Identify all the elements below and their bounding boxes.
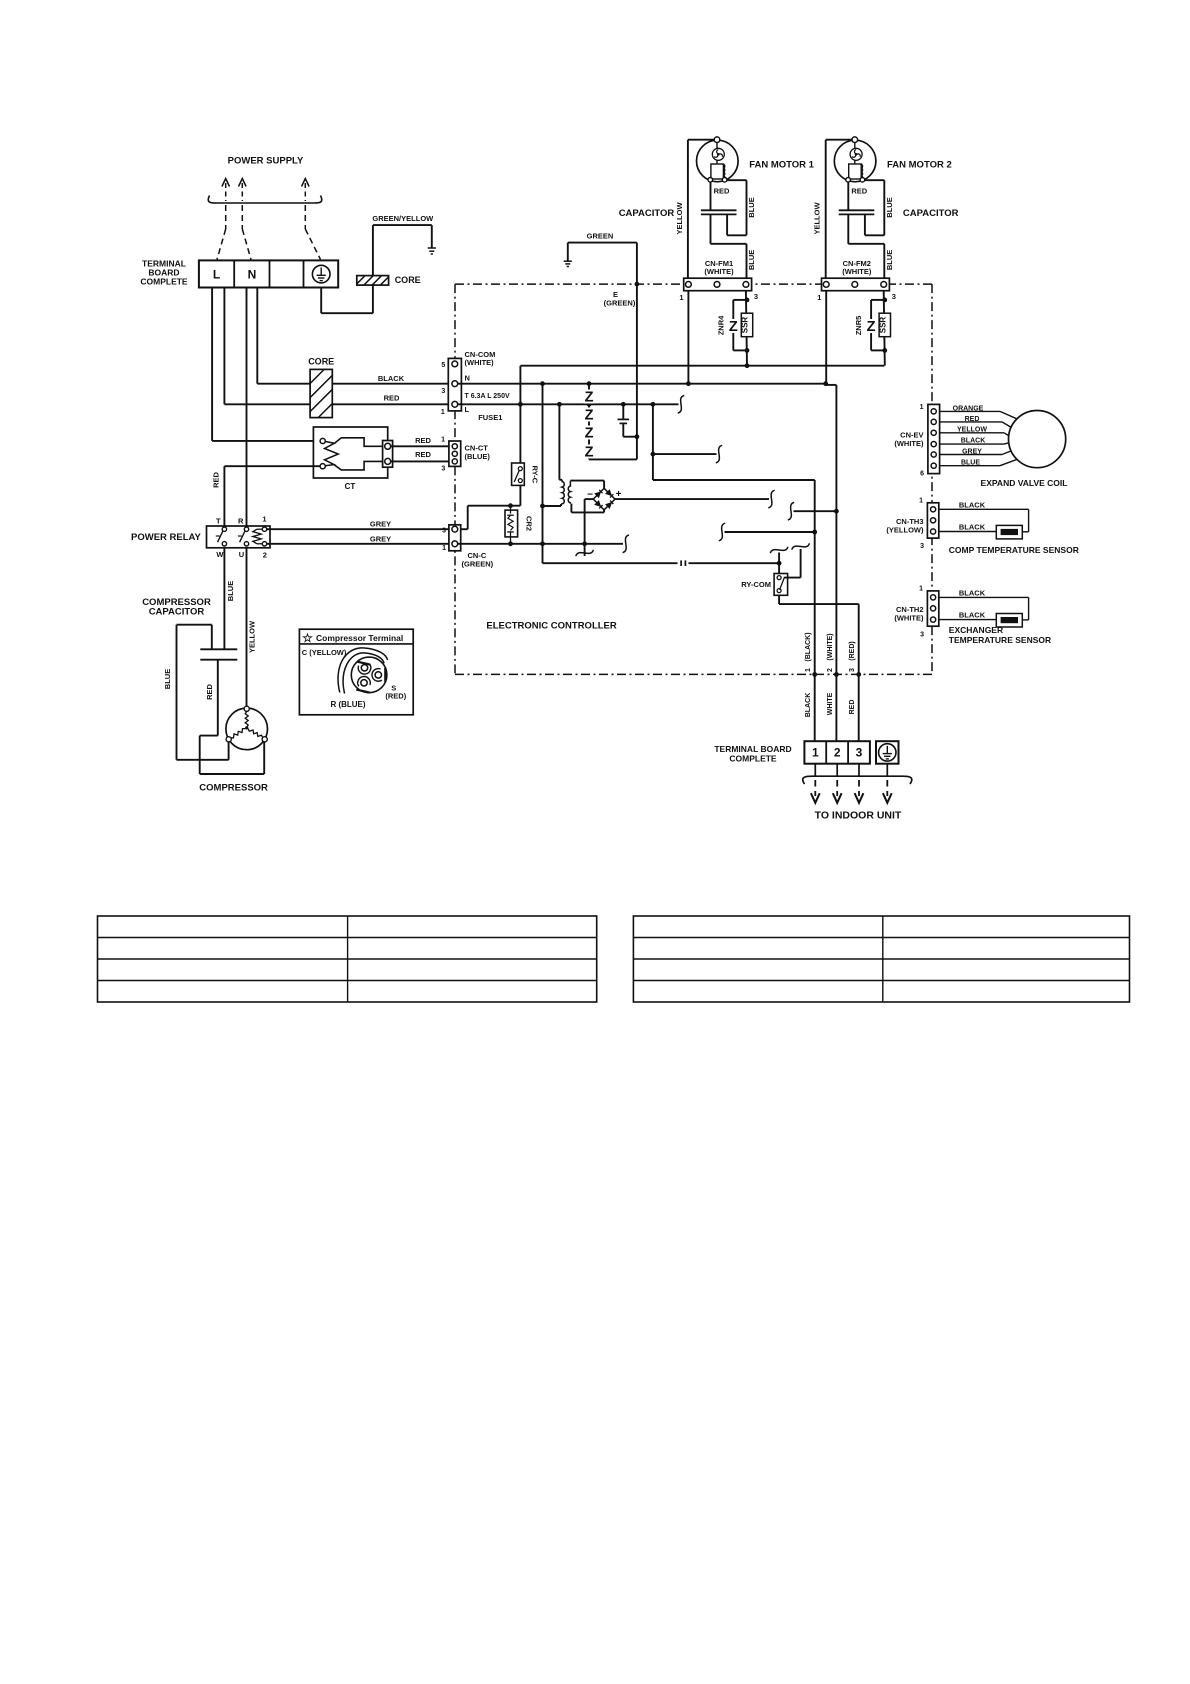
node N-drop primary: [540, 504, 545, 509]
svg-text:T: T: [216, 517, 221, 526]
svg-text:Z: Z: [585, 407, 594, 423]
wire pin3 down (motor 2): [884, 291, 885, 366]
compressor terminal drawing: [338, 648, 388, 694]
compressor capacitor plates: [200, 649, 237, 659]
ground symbol (green/yellow): [428, 248, 436, 254]
fan blades (motor 1): [712, 148, 724, 160]
node lead1 border: [812, 672, 817, 677]
svg-text:FAN MOTOR 2: FAN MOTOR 2: [887, 160, 952, 171]
table right: [633, 916, 1129, 1002]
svg-text:(BLUE): (BLUE): [465, 452, 491, 461]
svg-text:W: W: [216, 550, 224, 559]
svg-text:(WHITE): (WHITE): [827, 633, 834, 660]
wire N-drop vertical: [542, 384, 544, 564]
node lead3 border: [856, 672, 861, 677]
svg-text:1: 1: [919, 498, 923, 505]
series capacitor on com wire: [678, 560, 689, 566]
svg-text:(WHITE): (WHITE): [704, 267, 734, 276]
svg-text:BLUE: BLUE: [885, 197, 894, 217]
CT primary terminals: [320, 438, 325, 468]
svg-text:(GREEN): (GREEN): [604, 299, 636, 308]
svg-text:BLACK: BLACK: [805, 693, 812, 718]
svg-text:BLACK: BLACK: [959, 611, 986, 620]
wire N to CN-COM (BLACK through core): [257, 288, 452, 384]
svg-text:GREEN/YELLOW: GREEN/YELLOW: [372, 214, 434, 223]
node N fan1 yellow: [686, 381, 691, 386]
svg-text:CAPACITOR: CAPACITOR: [903, 208, 959, 219]
break (left of black joint): [719, 523, 725, 541]
svg-text:YELLOW: YELLOW: [675, 202, 684, 235]
wire bridge plus output: [615, 498, 769, 500]
wire branch to break: [653, 453, 717, 455]
svg-text:EXPAND VALVE COIL: EXPAND VALVE COIL: [981, 478, 1068, 488]
svg-text:2: 2: [263, 551, 267, 560]
terminal board complete (top): [199, 260, 338, 287]
node CR2 bottom: [508, 541, 513, 546]
connector CN-EV (WHITE): [928, 404, 940, 473]
relay SSR (motor 2): [878, 313, 890, 337]
connector CN-FM2: [822, 278, 890, 291]
wire yellow below connector (motor 1): [687, 291, 689, 384]
svg-text:CORE: CORE: [395, 275, 421, 285]
svg-text:ZNR4: ZNR4: [716, 315, 725, 335]
node black joint: [812, 530, 817, 535]
node N fan2 yellow: [823, 381, 828, 386]
label COMPRESSOR CAPACITOR: [142, 597, 211, 618]
labels BLACK (CN-TH3): [959, 500, 986, 531]
node znr bottom (motor 2): [882, 348, 887, 353]
break stub: [576, 550, 594, 556]
svg-text:ZNR5: ZNR5: [854, 316, 863, 336]
svg-text:1: 1: [441, 437, 445, 444]
svg-text:BLUE: BLUE: [747, 197, 756, 217]
connector CN-TH2: [927, 591, 938, 626]
connector CN-CT (BLUE): [449, 441, 461, 466]
svg-text:BLACK: BLACK: [378, 374, 405, 383]
svg-text:BLACK: BLACK: [959, 500, 986, 509]
break branch: [716, 445, 722, 463]
svg-text:RY-C: RY-C: [531, 465, 540, 483]
ground symbol (green): [564, 261, 572, 266]
wire from break to black: [725, 531, 815, 533]
wire to transformer primary: [543, 504, 562, 506]
svg-text:RED: RED: [415, 450, 431, 459]
varistor ZNR4 Z: [728, 319, 739, 333]
svg-text:(WHITE): (WHITE): [894, 439, 924, 448]
svg-text:CAPACITOR: CAPACITOR: [149, 607, 205, 618]
wire red (capacitor bottom to compressor S): [200, 660, 265, 774]
node L transformer: [557, 402, 562, 407]
svg-text:GREY: GREY: [962, 448, 982, 455]
svg-text:1: 1: [441, 409, 445, 416]
svg-text:ORANGE: ORANGE: [953, 406, 984, 413]
power relay coil resistor: [253, 527, 267, 546]
svg-text:3: 3: [442, 528, 446, 535]
svg-text:RY-COM: RY-COM: [741, 580, 771, 589]
svg-text:2: 2: [834, 746, 841, 760]
compressor windings: [231, 712, 263, 738]
svg-text:U: U: [239, 550, 244, 559]
wire green/yellow earth: [321, 225, 432, 313]
node N-Z column: [587, 381, 592, 386]
svg-text:1: 1: [817, 293, 821, 302]
svg-text:5: 5: [441, 362, 445, 369]
compressor terminal box: [299, 629, 413, 715]
wire CT to CN-CT pin3: [391, 460, 452, 462]
wire L to CT (left): [212, 288, 320, 441]
break bridge plus: [768, 490, 774, 508]
node lead2 border: [834, 672, 839, 677]
transformer secondary: [568, 481, 604, 513]
wire SSR bus: [520, 366, 884, 463]
node CR2 top: [508, 503, 513, 508]
svg-text:POWER SUPPLY: POWER SUPPLY: [228, 156, 304, 167]
svg-text:3: 3: [441, 466, 445, 473]
svg-text:ELECTRONIC CONTROLLER: ELECTRONIC CONTROLLER: [486, 621, 616, 632]
svg-text:1: 1: [262, 515, 266, 524]
svg-text:CT: CT: [345, 482, 356, 491]
svg-text:RED: RED: [849, 700, 856, 715]
svg-text:(WHITE): (WHITE): [894, 613, 924, 622]
varistor Z2: [584, 408, 595, 422]
svg-text:R: R: [238, 517, 244, 526]
svg-text:(BLACK): (BLACK): [805, 632, 812, 661]
svg-text:YELLOW: YELLOW: [248, 620, 257, 653]
wire blue (motor 1): [727, 180, 747, 235]
svg-text:1: 1: [812, 746, 819, 760]
svg-text:(RED): (RED): [849, 641, 856, 660]
svg-text:FUSE1: FUSE1: [478, 413, 502, 422]
node white joint: [834, 509, 839, 514]
break (left of white joint): [788, 502, 794, 520]
labels (BLACK)(WHITE)(RED): [805, 632, 856, 661]
capacitor (motor 1): [701, 182, 747, 278]
node SSR1 bus: [745, 363, 750, 368]
svg-text:EXCHANGER: EXCHANGER: [949, 625, 1003, 635]
wire N down to power relay R: [246, 288, 248, 527]
break bottom bus: [623, 535, 629, 553]
svg-text:RED: RED: [714, 187, 730, 196]
relay RY-COM: [774, 563, 788, 595]
connector CN-C (GREEN): [449, 525, 461, 551]
svg-text:T 6.3A L 250V: T 6.3A L 250V: [465, 393, 510, 400]
svg-text:2: 2: [827, 668, 834, 672]
svg-text:GREY: GREY: [370, 520, 391, 529]
wire green (E) with ground: [568, 243, 637, 460]
power relay contact R: [238, 527, 249, 546]
svg-text:1: 1: [442, 545, 446, 552]
break L bus: [678, 396, 684, 414]
svg-text:R (BLUE): R (BLUE): [330, 700, 365, 709]
connector CN-COM (WHITE): [448, 358, 461, 411]
svg-text:WHITE: WHITE: [827, 692, 834, 715]
svg-text:L: L: [213, 268, 220, 282]
svg-text:YELLOW: YELLOW: [813, 202, 822, 235]
power relay contact T: [216, 527, 227, 546]
CN-EV wire labels: [953, 406, 988, 467]
svg-text:COMPLETE: COMPLETE: [729, 753, 777, 763]
CT winding zigzag: [325, 442, 339, 466]
svg-text:RED: RED: [212, 472, 221, 488]
current transformer CT box: [313, 427, 387, 478]
core (horizontal, on green/yellow wire): [357, 276, 389, 286]
svg-text:1: 1: [679, 293, 683, 302]
CN-C labels: [442, 528, 494, 569]
svg-text:Compressor Terminal: Compressor Terminal: [316, 633, 403, 643]
wire yellow (motor 2): [826, 140, 852, 279]
wires CN-TH2 to sensor: [939, 597, 1029, 620]
compressor terminals: [226, 706, 267, 742]
wire L to fuse (RED through core): [224, 288, 452, 405]
svg-text:RED: RED: [851, 187, 867, 196]
svg-text:3: 3: [856, 746, 863, 760]
svg-text:☆: ☆: [302, 631, 313, 645]
svg-text:RED: RED: [384, 394, 400, 403]
wire L right drop: [653, 404, 815, 741]
wire GREY relay 1 to CN-C 3: [267, 528, 452, 530]
node N-drop on bus: [540, 541, 545, 546]
svg-text:BLUE: BLUE: [961, 459, 980, 466]
svg-text:RED: RED: [205, 684, 214, 700]
wire blue loop (capacitor top to compressor R): [177, 625, 229, 760]
svg-text:SSR: SSR: [741, 317, 750, 334]
svg-text:1: 1: [919, 586, 923, 593]
svg-text:N: N: [248, 268, 257, 282]
wire RY-COM to red lead: [779, 595, 859, 741]
labels pins 1 2 3: [805, 668, 856, 672]
svg-text:BLUE: BLUE: [226, 581, 235, 601]
wire varistor column: [589, 384, 637, 460]
wire bridge minus to bus: [585, 498, 594, 500]
CN-CT labels: [441, 437, 490, 473]
varistor ZNR4 branch: [733, 300, 747, 351]
svg-text:YELLOW: YELLOW: [957, 427, 987, 434]
label TERMINAL BOARD COMPLETE: [140, 259, 188, 287]
svg-text:Z: Z: [729, 319, 738, 335]
wire yellow (motor 1): [688, 140, 714, 279]
node cap to green: [635, 434, 640, 439]
svg-text:1: 1: [805, 668, 812, 672]
fan motor 1: [697, 137, 739, 182]
svg-text:3: 3: [441, 388, 445, 395]
node znr top (motor 1): [745, 298, 750, 303]
connector CN-FM1: [684, 278, 752, 291]
core (vertical): [310, 369, 332, 417]
terminal board earth symbol: [312, 265, 330, 283]
varistor ZNR5 Z: [866, 319, 877, 333]
CN-COM labels: [441, 350, 510, 422]
svg-text:BLACK: BLACK: [959, 523, 986, 532]
resistor CR2: [505, 506, 518, 544]
svg-text:POWER RELAY: POWER RELAY: [131, 532, 202, 543]
svg-text:COMPRESSOR: COMPRESSOR: [199, 783, 268, 794]
svg-text:TERMINAL BOARD: TERMINAL BOARD: [714, 744, 791, 754]
wire stubs below terminal board: [815, 764, 887, 777]
power relay pin labels: [216, 515, 267, 560]
wire GREY relay 2 to CN-C 1: [267, 543, 452, 545]
relay SSR (motor 1): [741, 313, 753, 337]
label TERMINAL BOARD COMPLETE (bottom): [714, 744, 791, 764]
CT secondary outline: [334, 438, 383, 470]
svg-text:TO INDOOR UNIT: TO INDOOR UNIT: [815, 810, 902, 822]
node L right drop: [651, 402, 656, 407]
node branch 454: [651, 452, 656, 457]
wire YELLOW relay U to compressor C: [246, 548, 248, 706]
svg-text:Z: Z: [585, 425, 594, 441]
svg-text:1: 1: [920, 404, 924, 411]
connector CN-TH3: [927, 503, 938, 538]
motor coil (motor 1): [708, 164, 727, 182]
wire CT to power relay T: [224, 466, 320, 526]
node znr top (motor 2): [882, 298, 887, 303]
svg-text:(YELLOW): (YELLOW): [886, 525, 924, 534]
label CN-FM2 (WHITE): [842, 259, 872, 276]
relay RY-C: [512, 463, 525, 485]
svg-text:FAN MOTOR 1: FAN MOTOR 1: [749, 160, 814, 171]
dashed arrows to indoor unit: [811, 780, 892, 803]
svg-text:SSR: SSR: [878, 317, 887, 334]
CN-TH3 labels: [886, 498, 924, 551]
svg-text:Z: Z: [585, 444, 594, 460]
svg-text:Z: Z: [585, 389, 594, 405]
svg-text:RED: RED: [965, 416, 980, 423]
terminal board complete (bottom): [804, 741, 870, 764]
node RY-COM top: [777, 561, 782, 566]
node znr bottom (motor 1): [745, 348, 750, 353]
cable bracket (bottom): [803, 776, 912, 784]
svg-text:BLUE: BLUE: [163, 669, 172, 689]
expand valve coil: [1009, 411, 1066, 468]
wire pin3 down (motor 1): [746, 291, 747, 366]
electronic controller border (dash-dot): [455, 284, 932, 674]
varistor Z3: [584, 426, 595, 440]
svg-text:CAPACITOR: CAPACITOR: [619, 208, 675, 219]
power supply arrows: [222, 179, 309, 202]
label S (RED): [385, 684, 406, 701]
label EXCHANGER TEMPERATURE SENSOR: [949, 625, 1051, 645]
wire CT to CN-CT pin1: [391, 445, 452, 447]
svg-text:(GREEN): (GREEN): [462, 560, 494, 569]
wires CN-EV to coil: [940, 411, 1017, 465]
wires CN-TH3 to sensor: [939, 509, 1029, 532]
wire RY-C to CN-C 3: [458, 485, 521, 529]
svg-text:BLACK: BLACK: [959, 588, 986, 597]
wire blue (motor 2): [865, 180, 885, 235]
motor coil (motor 2): [846, 164, 865, 182]
thermistor (CN-TH3): [996, 525, 1022, 539]
wire com (from N-drop): [543, 562, 780, 564]
svg-text:CR2: CR2: [525, 516, 534, 531]
pin labels CN-FM1: [679, 292, 758, 302]
wire L bus: [458, 403, 679, 405]
varistor Z4: [584, 445, 595, 459]
svg-text:BLACK: BLACK: [961, 438, 986, 445]
node N-drop: [540, 381, 545, 386]
svg-text:L: L: [465, 405, 470, 414]
stub below bridge minus: [584, 544, 586, 556]
svg-text:3: 3: [754, 292, 758, 301]
svg-text:N: N: [465, 374, 470, 383]
fan motor 2: [834, 137, 876, 182]
labels BLACK WHITE RED: [805, 692, 856, 717]
dashed leads to terminal board: [217, 205, 321, 260]
wire RY-COM up break: [778, 553, 780, 564]
capacitor (motor 2): [839, 182, 885, 278]
svg-text:BLUE: BLUE: [885, 250, 894, 270]
CN-TH2 labels: [894, 586, 924, 639]
labels BLACK (CN-TH2): [959, 588, 986, 619]
label CN-FM1 (WHITE): [704, 259, 734, 276]
svg-text:(RED): (RED): [385, 692, 406, 701]
compressor motor: [226, 708, 268, 750]
wire N bus jog to white lead: [826, 384, 837, 742]
svg-text:3: 3: [849, 668, 856, 672]
svg-text:COMPLETE: COMPLETE: [140, 277, 188, 287]
wire BLUE relay W to capacitor: [223, 548, 225, 650]
svg-text:CORE: CORE: [308, 357, 334, 367]
svg-text:COMP TEMPERATURE SENSOR: COMP TEMPERATURE SENSOR: [949, 545, 1079, 555]
power relay box: [207, 526, 271, 548]
svg-text:Z: Z: [867, 319, 876, 335]
node E (GREEN) on border: [635, 282, 640, 287]
node L RY-C: [518, 402, 523, 407]
CT output block: [383, 441, 393, 468]
thermistor (CN-TH2): [996, 614, 1022, 628]
varistor Z1: [584, 390, 595, 404]
varistor ZNR5 branch: [871, 300, 885, 351]
cable bundle bracket: [208, 196, 322, 204]
node bridge minus: [582, 541, 587, 546]
svg-text:(WHITE): (WHITE): [465, 358, 495, 367]
svg-text:6: 6: [920, 470, 924, 477]
svg-text:BLUE: BLUE: [747, 250, 756, 270]
wire from break to white: [794, 510, 837, 512]
wire bottom bus (CN-C 1): [458, 543, 624, 545]
pin labels CN-FM2: [817, 292, 896, 302]
fan blades (motor 2): [850, 148, 862, 160]
CN-EV labels: [894, 404, 924, 478]
wire RY-COM contact to break: [785, 549, 801, 578]
svg-text:GREY: GREY: [370, 535, 391, 544]
capacitor (L to E): [618, 404, 637, 436]
svg-text:GREEN: GREEN: [587, 231, 614, 240]
svg-text:C (YELLOW): C (YELLOW): [302, 648, 347, 657]
table left: [98, 916, 597, 1002]
node L Z column: [587, 402, 592, 407]
wire yellow below connector (motor 2): [825, 291, 827, 384]
svg-text:TEMPERATURE SENSOR: TEMPERATURE SENSOR: [949, 635, 1051, 645]
break RY-COM contact: [792, 543, 810, 549]
bridge rectifier: [593, 481, 615, 513]
break RY-COM top: [770, 547, 788, 553]
svg-text:3: 3: [920, 631, 924, 638]
label E (GREEN): [604, 290, 636, 308]
svg-text:RED: RED: [415, 436, 431, 445]
svg-text:3: 3: [892, 292, 896, 301]
svg-text:3: 3: [920, 543, 924, 550]
transformer primary: [559, 404, 564, 504]
svg-text:(WHITE): (WHITE): [842, 267, 872, 276]
wire N bus: [458, 383, 826, 385]
node L capacitor: [621, 402, 626, 407]
terminal board earth (bottom): [876, 741, 899, 764]
